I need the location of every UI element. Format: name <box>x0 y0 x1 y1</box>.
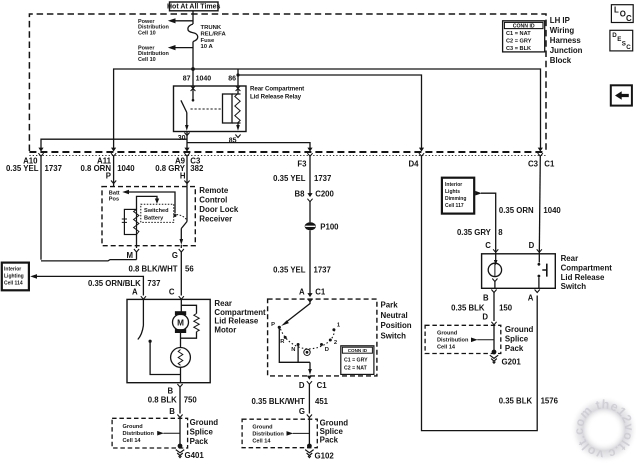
svg-text:C1: C1 <box>317 381 328 390</box>
svg-text:Pack: Pack <box>505 344 524 353</box>
svg-text:0.35 YEL: 0.35 YEL <box>273 265 306 274</box>
wire: 1040 feed rail from A11 drop to C3/C1 drop <box>114 69 541 149</box>
svg-text:1737: 1737 <box>314 265 331 274</box>
motor internal: limit switch from pin A <box>138 299 180 374</box>
svg-text:M: M <box>127 251 134 260</box>
svg-text:N: N <box>291 347 295 353</box>
svg-text:150: 150 <box>499 304 513 313</box>
connector: receiver pin H entry <box>184 181 189 184</box>
PNP internal: contact arc P R N D 2 1 <box>278 326 336 356</box>
wire label: 0.35 BLK 150 <box>451 304 513 322</box>
svg-text:REL/RFA: REL/RFA <box>201 32 227 38</box>
power label: Hot At All Times <box>167 2 221 11</box>
switch internal: pushbutton contact <box>538 254 547 288</box>
connector: switch pin C <box>485 241 498 252</box>
wire label: 0.35 GRY 8 <box>457 228 503 237</box>
connector: switch pin D <box>529 241 542 252</box>
svg-text:86: 86 <box>228 76 236 83</box>
wire: D4 down-left loop to switch pin A <box>422 156 538 431</box>
svg-text:2: 2 <box>334 340 337 346</box>
svg-text:Battery: Battery <box>144 215 164 221</box>
connector: PNP pin A / C1 <box>299 287 326 301</box>
svg-text:LH IP: LH IP <box>550 16 570 25</box>
svg-text:Park: Park <box>381 301 399 310</box>
svg-text:Interior: Interior <box>445 182 462 188</box>
svg-text:O: O <box>620 10 626 19</box>
wire label: 0.35 YEL 1737 (upper) <box>273 174 331 183</box>
svg-text:Receiver: Receiver <box>199 214 232 223</box>
svg-text:0.35 YEL: 0.35 YEL <box>6 164 39 173</box>
label: Ground Splice Pack (G102) <box>320 418 349 444</box>
connector: switch pin A <box>528 290 540 303</box>
svg-text:1737: 1737 <box>45 164 63 173</box>
svg-text:Motor: Motor <box>214 325 236 334</box>
svg-text:451: 451 <box>315 397 329 406</box>
svg-text:M: M <box>177 319 184 328</box>
wire label: 0.35 BLK/WHT 451 <box>252 397 329 416</box>
svg-text:Dimming: Dimming <box>445 196 466 202</box>
svg-text:Switch: Switch <box>561 282 587 291</box>
svg-text:C1 = NAT: C1 = NAT <box>506 31 531 37</box>
svg-text:Interior: Interior <box>4 266 21 272</box>
svg-text:Distribution: Distribution <box>252 432 284 438</box>
svg-text:TRUNK: TRUNK <box>201 25 222 31</box>
label: LH IP Wiring Harness Junction Block <box>550 16 583 65</box>
motor internal: circuit breaker <box>171 333 191 383</box>
connector C3/C1 at bus <box>528 148 555 169</box>
svg-text:0.35 BLK: 0.35 BLK <box>499 397 533 406</box>
svg-text:D: D <box>529 241 535 250</box>
svg-text:G401: G401 <box>185 451 205 460</box>
connector: receiver pin P entry <box>111 181 116 184</box>
svg-text:B8: B8 <box>295 189 306 198</box>
svg-text:C2 = NAT: C2 = NAT <box>344 365 368 371</box>
svg-text:0.35 GRY: 0.35 GRY <box>457 228 492 237</box>
svg-text:D4: D4 <box>408 159 419 168</box>
svg-text:Cell 14: Cell 14 <box>123 438 142 444</box>
reference arrow into Interior Lighting <box>30 274 143 295</box>
svg-text:Block: Block <box>550 56 572 65</box>
pin 85 label + connector <box>229 135 241 145</box>
splice box: Ground Distribution Cell 14 (G102) <box>242 415 317 448</box>
wire: C3/C1 down to switch pin D <box>539 156 540 254</box>
ground G201 <box>490 355 522 366</box>
svg-text:Switch: Switch <box>381 331 407 340</box>
svg-text:Distribution: Distribution <box>123 431 155 437</box>
PNP internal: selector lever from pin A <box>281 299 310 326</box>
node: splice S (G201) <box>492 350 497 355</box>
svg-text:A: A <box>132 287 138 296</box>
svg-text:H: H <box>180 172 186 181</box>
connector A10 at bus <box>6 148 63 173</box>
svg-text:C3 = BLK: C3 = BLK <box>506 46 531 52</box>
svg-text:0.35 ORN: 0.35 ORN <box>499 206 534 215</box>
motor pin B connector <box>167 384 182 414</box>
svg-text:C200: C200 <box>315 189 334 198</box>
wire: rail relay-30 to A10 <box>41 139 187 148</box>
PNP switch S: Park Neutral Position Switch (dashed box) <box>268 299 412 376</box>
svg-text:C: C <box>169 287 175 296</box>
svg-text:D: D <box>325 347 329 353</box>
receiver label: Batt Pos <box>109 191 120 203</box>
splice box: Ground Distribution Cell 14 (G401) <box>112 415 188 449</box>
svg-text:Cell 14: Cell 14 <box>437 344 456 350</box>
svg-text:1737: 1737 <box>314 174 331 183</box>
box: Interior Lighting Cell 114 <box>2 263 29 291</box>
svg-text:Splice: Splice <box>505 334 529 343</box>
connector A11 at bus <box>80 148 135 181</box>
receiver internal block: Switched Battery (dotted box) <box>141 204 174 222</box>
svg-text:Rear: Rear <box>214 299 232 308</box>
wire label: 0.35 YEL 1737 (lower) <box>273 265 331 274</box>
svg-text:C: C <box>626 14 632 23</box>
relay contact 87-30 <box>181 86 222 131</box>
svg-text:Pack: Pack <box>320 435 339 444</box>
node: splice S (G102) <box>307 444 312 449</box>
svg-text:30: 30 <box>178 135 186 142</box>
svg-text:Remote: Remote <box>199 186 229 195</box>
svg-text:C1: C1 <box>315 287 326 296</box>
receiver internal: relay coil <box>122 209 139 245</box>
pin 30 label + connector <box>178 133 190 143</box>
box: Interior Lights Dimming Cell 117 <box>442 178 474 214</box>
svg-text:Cell 114: Cell 114 <box>4 280 23 286</box>
receiver pin G connector <box>172 249 184 296</box>
junction block dashed boundary: LH IP Wiring Harness Junction Block <box>29 14 546 151</box>
svg-text:Lights: Lights <box>445 189 460 195</box>
svg-text:10 A: 10 A <box>201 44 214 50</box>
svg-text:Hot At All Times: Hot At All Times <box>167 4 221 11</box>
svg-text:Control: Control <box>199 195 227 204</box>
svg-text:C: C <box>485 241 491 250</box>
svg-text:Splice: Splice <box>190 427 214 436</box>
wire: rail A9/85 to F3 <box>187 143 310 149</box>
node: fuse rail splice <box>191 67 195 71</box>
svg-text:1040: 1040 <box>543 206 561 215</box>
svg-text:750: 750 <box>184 395 198 404</box>
button DESC <box>610 30 633 51</box>
svg-text:0.35 BLK: 0.35 BLK <box>451 304 485 313</box>
switch SW: Rear Compartment Lid Release Switch (box) <box>482 254 613 291</box>
table: CONN ID (C1=GRY C2=NAT) in PNP box <box>341 346 374 375</box>
svg-text:0.35 YEL: 0.35 YEL <box>273 174 306 183</box>
svg-text:Neutral: Neutral <box>381 311 408 320</box>
svg-text:C: C <box>626 44 631 51</box>
svg-text:737: 737 <box>147 279 160 288</box>
PNP contact labels <box>271 322 341 353</box>
svg-text:1576: 1576 <box>541 397 559 406</box>
connector: PNP pin D / C1 <box>299 376 327 414</box>
svg-text:Lid Release: Lid Release <box>561 273 605 282</box>
connector A9/C3 at bus <box>155 148 204 181</box>
svg-text:Ground: Ground <box>437 330 458 336</box>
grommet P100 <box>305 222 339 231</box>
motor pin A connector <box>132 287 146 299</box>
bus: lower dotted connector row <box>29 154 546 156</box>
connector: switch pin B <box>483 290 497 322</box>
bus: junction block bottom connector row (dashed) <box>29 151 546 153</box>
splice box: Ground Distribution Cell 14 (G201) <box>425 322 501 354</box>
svg-text:C1: C1 <box>544 159 555 168</box>
connector F3 at bus <box>297 148 312 169</box>
wire label: 0.35 ORN 1040 <box>499 206 561 215</box>
svg-text:Fuse: Fuse <box>201 38 215 44</box>
svg-text:0.8 BLK/WHT: 0.8 BLK/WHT <box>129 264 178 273</box>
svg-text:Junction: Junction <box>550 46 583 55</box>
connector D4 at bus <box>408 148 424 169</box>
button LOC <box>611 5 633 23</box>
wire: relay 86 feed drop <box>237 69 239 86</box>
switch internal: illumination lamp <box>488 254 501 288</box>
connector C200 (B8) <box>295 189 335 201</box>
relay K: Rear Compartment Lid Release Relay <box>174 86 305 132</box>
wire: C200 to P100 <box>309 202 311 223</box>
svg-text:P: P <box>271 322 275 328</box>
svg-text:0.35 BLK/WHT: 0.35 BLK/WHT <box>252 397 306 406</box>
svg-text:Pack: Pack <box>190 437 209 446</box>
svg-text:G: G <box>299 407 305 416</box>
svg-text:CONN ID: CONN ID <box>513 24 535 30</box>
label: Ground Splice Pack (G201) <box>505 325 534 353</box>
svg-text:56: 56 <box>185 264 194 273</box>
svg-text:C3: C3 <box>528 159 539 168</box>
wire: relay 30 to A9 vertical (down to bus) <box>186 132 188 149</box>
svg-text:Lid Release Relay: Lid Release Relay <box>250 93 302 100</box>
wire: P100 to PNP switch pin A <box>309 230 311 295</box>
motor internal: parallel resistor <box>181 305 200 338</box>
svg-text:Rear Compartment: Rear Compartment <box>250 86 304 93</box>
svg-text:Cell 10: Cell 10 <box>138 30 156 36</box>
ground G102 <box>305 450 334 461</box>
fuse F: TRUNK REL/RFA Fuse 10 A <box>188 11 227 86</box>
svg-text:Ground: Ground <box>123 424 144 430</box>
svg-text:C1 = GRY: C1 = GRY <box>344 357 368 363</box>
svg-text:G102: G102 <box>315 451 335 460</box>
svg-text:Cell 14: Cell 14 <box>252 439 271 445</box>
wire label: 0.8 BLK 750 <box>148 395 198 416</box>
svg-text:382: 382 <box>190 164 204 173</box>
svg-text:Compartment: Compartment <box>561 263 613 272</box>
motor M: Rear Compartment Lid Release Motor (box) <box>127 299 266 383</box>
svg-text:0.8 BLK: 0.8 BLK <box>148 395 177 404</box>
svg-text:8: 8 <box>498 228 503 237</box>
motor internal: motor armature symbol <box>173 299 189 333</box>
svg-text:F3: F3 <box>297 160 307 169</box>
svg-text:Cell 10: Cell 10 <box>138 57 156 63</box>
svg-text:1040: 1040 <box>196 76 212 83</box>
node: splice S (G401) <box>178 444 183 449</box>
wire: A10 down the left side <box>40 156 42 260</box>
node: 86 drop / D4 rail tee <box>236 73 239 76</box>
button back-arrow <box>611 85 632 105</box>
receiver internal: switch pivot + contact to pin G <box>174 187 188 248</box>
svg-text:Pos: Pos <box>109 197 119 203</box>
svg-text:Compartment: Compartment <box>214 308 266 317</box>
PNP internal: P and N contacts to output D <box>279 327 312 375</box>
svg-text:B: B <box>169 407 175 416</box>
relay coil 86-85 <box>223 86 241 131</box>
svg-text:P: P <box>106 172 111 181</box>
wire: receiver M to A10 branch (737/1737 link) <box>41 260 137 261</box>
svg-text:Distribution: Distribution <box>437 337 469 343</box>
wire: A9 to receiver pin H <box>186 156 188 187</box>
svg-text:85: 85 <box>229 138 237 145</box>
svg-text:87: 87 <box>183 76 191 83</box>
wire: A11 to receiver pin P <box>113 156 115 187</box>
svg-text:G: G <box>172 251 178 260</box>
reference arrow from Interior Lights Dimming <box>475 191 496 254</box>
svg-text:A: A <box>528 293 534 302</box>
svg-text:Switched: Switched <box>144 208 169 214</box>
svg-text:Door Lock: Door Lock <box>199 205 239 214</box>
svg-text:Lid Release: Lid Release <box>214 317 258 326</box>
svg-text:Harness: Harness <box>550 36 582 45</box>
motor pin C connector <box>169 287 184 299</box>
svg-text:1040: 1040 <box>117 164 135 173</box>
wire label: 0.8 BLK/WHT 56 <box>129 264 195 273</box>
svg-text:Position: Position <box>381 321 412 330</box>
receiver internal: batt-pos feed arrow to switch pivot <box>122 190 175 214</box>
receiver internal: switched battery drive to coil <box>137 196 160 209</box>
ground G401 <box>176 450 205 460</box>
label: Ground Splice Pack (G401) <box>190 418 219 446</box>
svg-text:B: B <box>167 387 173 396</box>
svg-text:Cell 117: Cell 117 <box>445 203 464 209</box>
svg-text:Wiring: Wiring <box>550 26 575 35</box>
receiver U: Remote Control Door Lock Receiver (dashed box) <box>102 186 239 246</box>
svg-text:CONN ID: CONN ID <box>348 348 368 353</box>
svg-text:Ground: Ground <box>252 425 273 431</box>
svg-text:B: B <box>483 293 489 302</box>
wire: 1040 rail to D4 drop <box>238 75 422 149</box>
svg-text:A: A <box>299 287 305 296</box>
svg-text:Ground: Ground <box>505 325 534 334</box>
svg-text:Lighting: Lighting <box>4 273 24 279</box>
svg-text:C2 = GRY: C2 = GRY <box>506 39 532 45</box>
wire label: 0.35 ORN/BLK 737 <box>88 279 160 288</box>
reference arrow: Power Distribution Cell 10 (upper) <box>138 18 193 36</box>
svg-text:Rear: Rear <box>561 254 579 263</box>
table: CONN ID (C1=NAT C2=GRY C3=BLK) <box>503 21 545 52</box>
svg-text:P100: P100 <box>320 223 339 232</box>
receiver pin M connector <box>127 246 140 260</box>
wire label: 0.35 BLK 1576 <box>499 397 559 406</box>
svg-text:D: D <box>482 312 488 321</box>
svg-text:G201: G201 <box>502 357 522 366</box>
svg-text:L: L <box>614 5 619 14</box>
reference arrow: Power Distribution Cell 10 (lower) <box>138 45 193 63</box>
svg-text:Ground: Ground <box>190 418 219 427</box>
wire: F3 to C200 <box>309 156 311 197</box>
svg-text:D: D <box>299 381 305 390</box>
